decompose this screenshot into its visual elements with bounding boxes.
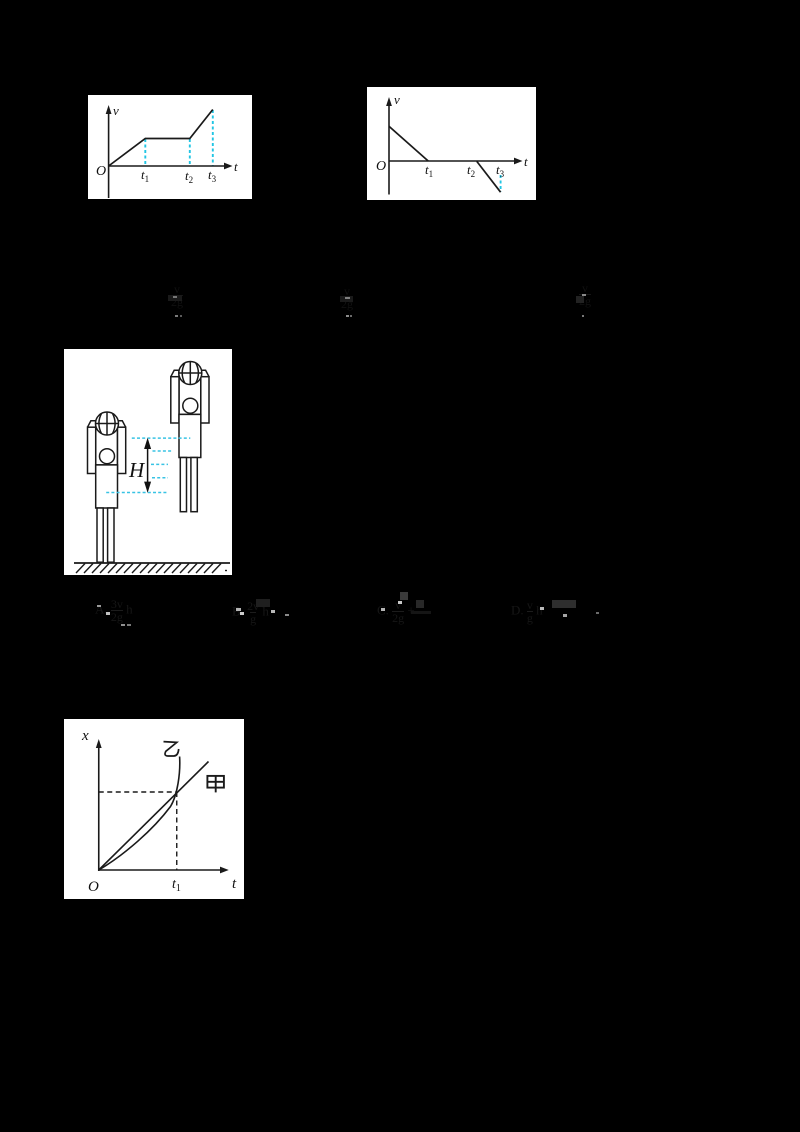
svg-text:t2: t2 (467, 162, 475, 179)
svg-text:O: O (88, 879, 99, 895)
svg-text:t: t (524, 154, 528, 169)
svg-text:t1: t1 (141, 167, 149, 184)
svg-text:t3: t3 (208, 167, 217, 184)
svg-text:v: v (394, 92, 400, 107)
svg-text:t3: t3 (496, 162, 505, 179)
svg-text:x: x (81, 728, 89, 744)
svg-text:t: t (232, 876, 237, 892)
svg-text:t2: t2 (185, 168, 193, 185)
svg-text:t1: t1 (172, 877, 181, 894)
svg-text:v: v (113, 103, 119, 118)
svg-text:O: O (376, 159, 386, 174)
svg-text:t1: t1 (425, 162, 433, 179)
svg-text:H: H (128, 458, 146, 482)
svg-text:t: t (234, 159, 238, 174)
svg-text:O: O (96, 164, 106, 179)
